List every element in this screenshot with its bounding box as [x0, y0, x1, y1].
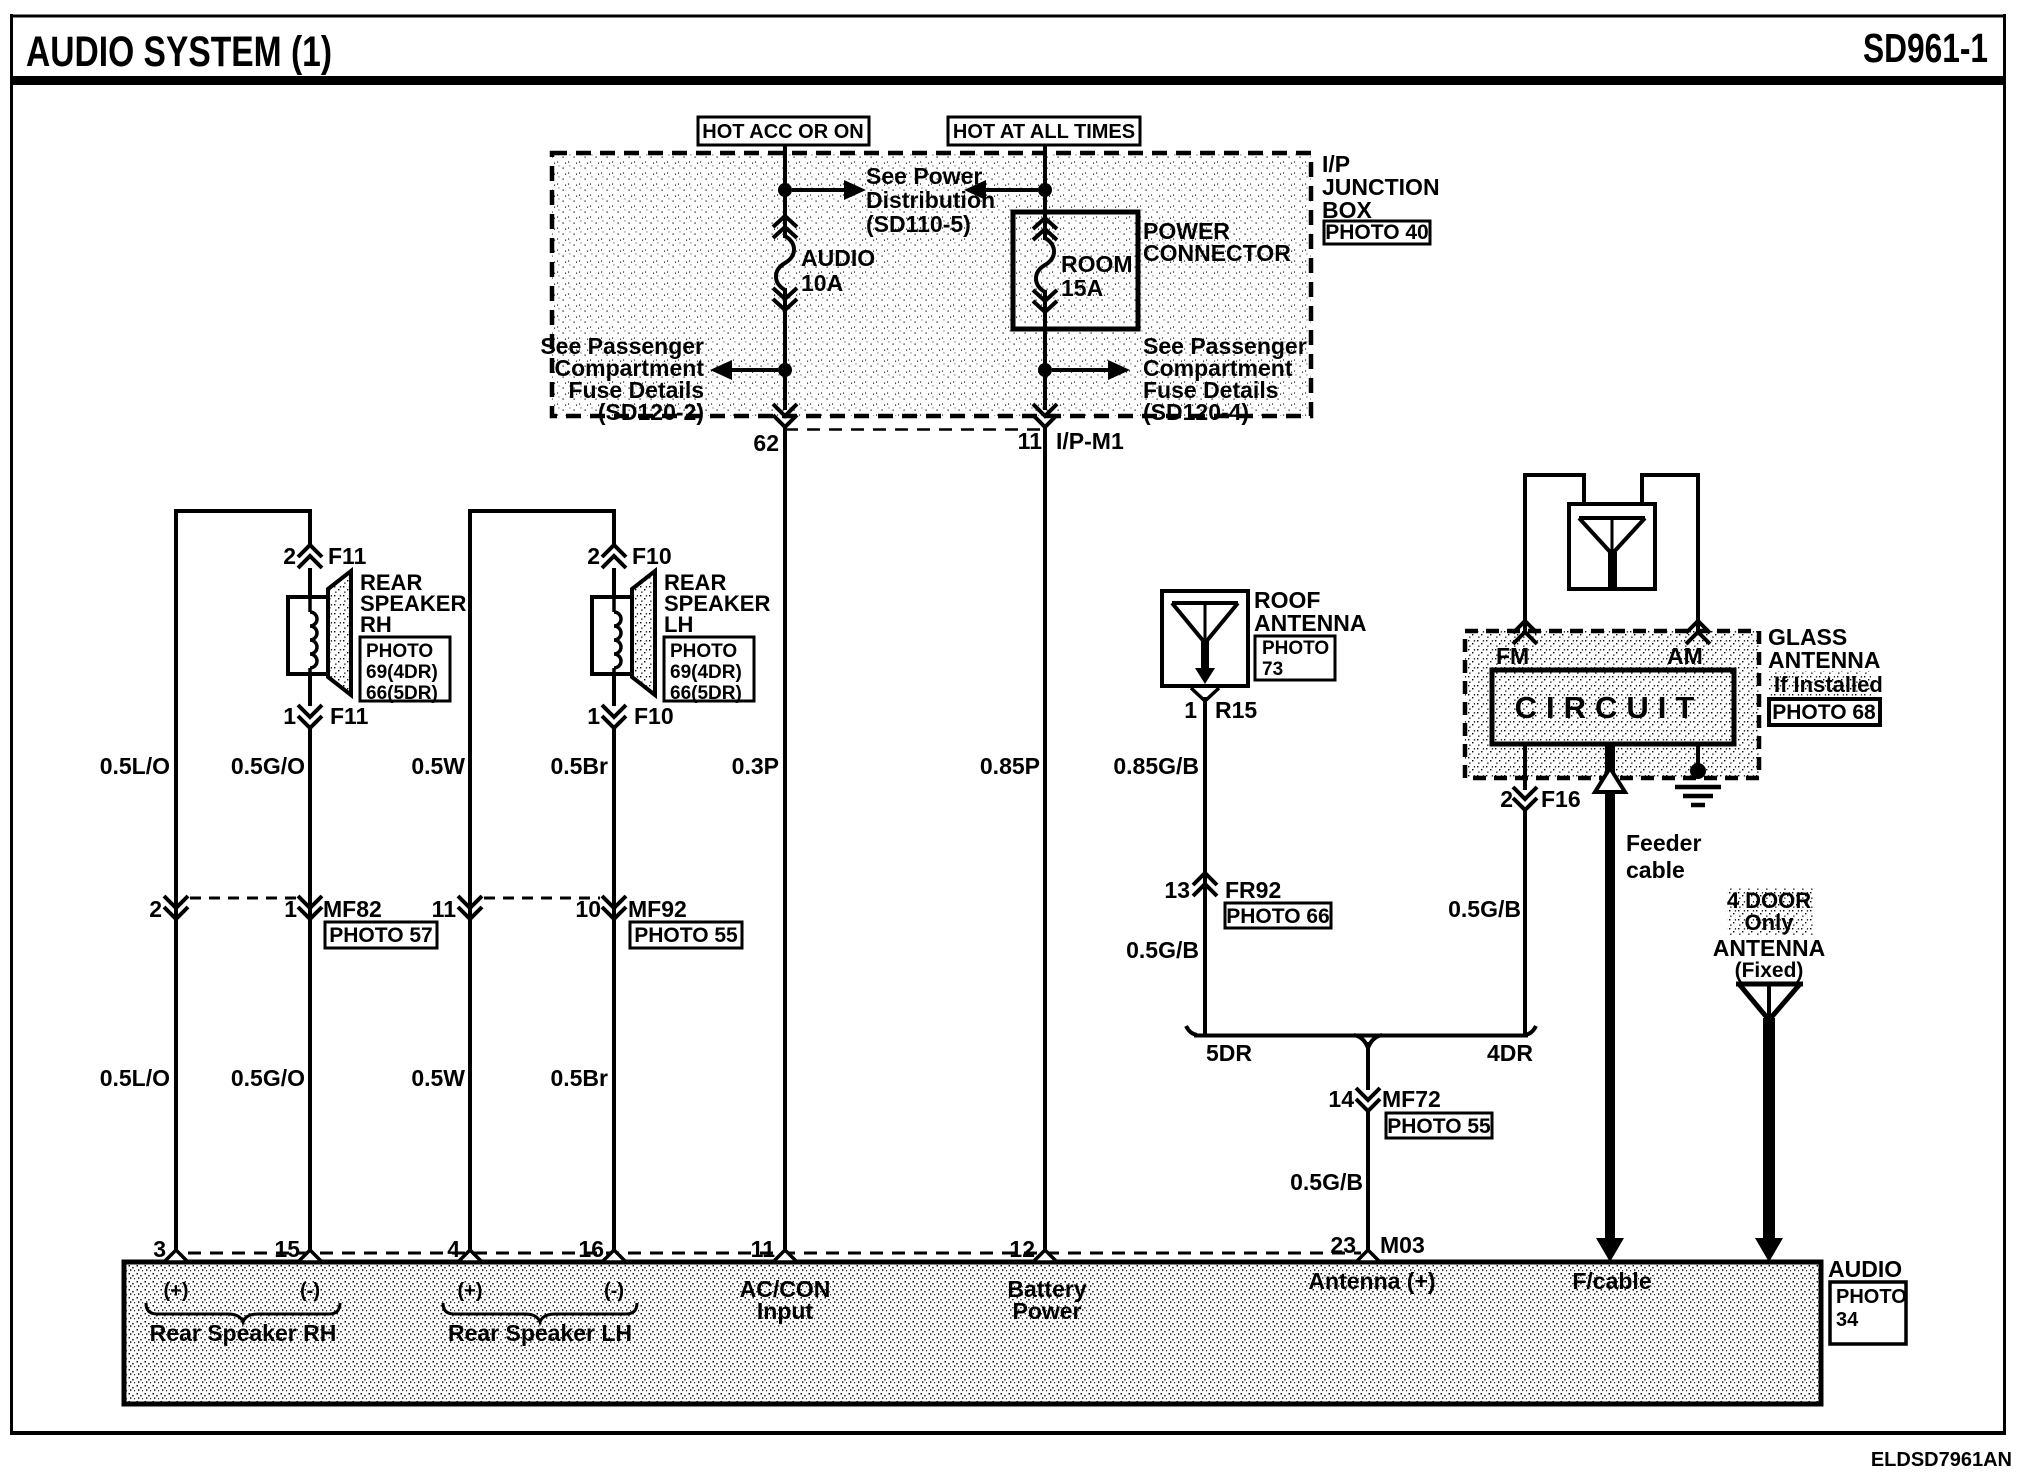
power connector box — [1013, 212, 1291, 329]
svg-text:Input: Input — [757, 1298, 814, 1324]
connector I/P-M1 chevron — [1033, 404, 1057, 427]
svg-text:PHOTO 55: PHOTO 55 — [634, 924, 738, 947]
svg-text:PHOTO 66: PHOTO 66 — [1226, 905, 1329, 928]
svg-text:2: 2 — [587, 543, 600, 569]
antenna fixed element — [1736, 984, 1803, 1262]
svg-text:PHOTO 40: PHOTO 40 — [1325, 221, 1428, 244]
label 4 DOOR Only — [1727, 888, 1813, 935]
svg-text:1: 1 — [283, 703, 296, 729]
svg-text:F16: F16 — [1541, 786, 1581, 812]
wire 5DR 4DR branch — [1186, 1026, 1536, 1262]
svg-text:If Installed: If Installed — [1774, 672, 1883, 697]
connector MF72 — [1328, 1086, 1440, 1112]
svg-text:(Fixed): (Fixed) — [1735, 959, 1804, 982]
label Battery Power — [1007, 1276, 1086, 1324]
svg-text:2: 2 — [149, 896, 162, 922]
svg-text:14: 14 — [1328, 1086, 1354, 1112]
svg-text:See Power: See Power — [866, 163, 982, 189]
svg-text:ANTENNA: ANTENNA — [1254, 610, 1366, 636]
wire arrow to SD120-2 — [710, 360, 778, 380]
wire rear speaker RH plus loop — [176, 511, 310, 1262]
svg-text:0.5Br: 0.5Br — [550, 1065, 608, 1091]
note see passenger compartment fuse details SD120-4 — [1143, 333, 1307, 425]
label PHOTO 55 MF92 — [630, 922, 742, 948]
svg-text:I/P-M1: I/P-M1 — [1056, 428, 1124, 454]
glass antenna element — [1569, 504, 1655, 589]
label HOT AT ALL TIMES — [948, 117, 1140, 145]
wire AM ground lead — [1696, 744, 1700, 772]
svg-text:RH: RH — [360, 612, 392, 637]
label I/P JUNCTION BOX — [1322, 151, 1440, 223]
svg-text:Rear Speaker LH: Rear Speaker LH — [448, 1320, 632, 1346]
label AC/CON Input — [740, 1276, 831, 1324]
brace rear speaker RH — [146, 1303, 340, 1322]
node ground dot — [1690, 763, 1706, 779]
speaker rear LH — [592, 571, 655, 695]
svg-text:66(5DR): 66(5DR) — [366, 683, 438, 704]
roof antenna R15 — [1162, 591, 1248, 701]
connector F11 pin 2 — [283, 543, 366, 569]
svg-text:5DR: 5DR — [1206, 1040, 1252, 1066]
wire harness dashed line above audio — [188, 1252, 1361, 1255]
svg-text:(SD120-4): (SD120-4) — [1143, 399, 1249, 425]
wire AM lead — [1642, 475, 1698, 631]
svg-text:3: 3 — [153, 1236, 166, 1262]
pin tents on audio box — [164, 1250, 1380, 1262]
node junction dot B2 — [1038, 363, 1052, 377]
svg-text:Antenna (+): Antenna (+) — [1308, 1268, 1435, 1294]
svg-text:AUDIO SYSTEM (1): AUDIO SYSTEM (1) — [26, 28, 332, 76]
wire label row lower — [100, 1065, 608, 1091]
svg-text:FR92: FR92 — [1225, 877, 1281, 903]
svg-text:LH: LH — [664, 612, 693, 637]
svg-text:0.85P: 0.85P — [980, 753, 1040, 779]
svg-text:(-): (-) — [300, 1280, 320, 1302]
svg-text:69(4DR): 69(4DR) — [366, 662, 438, 683]
node junction dot A2 — [778, 363, 792, 377]
svg-text:BOX: BOX — [1322, 197, 1373, 223]
svg-text:10A: 10A — [801, 270, 843, 296]
svg-text:0.5L/O: 0.5L/O — [100, 753, 170, 779]
connector F11 pin 1 — [283, 703, 368, 729]
svg-text:ROOM: ROOM — [1061, 251, 1133, 277]
svg-text:(SD120-2): (SD120-2) — [598, 399, 704, 425]
svg-text:0.3P: 0.3P — [732, 753, 779, 779]
wire roof antenna lead — [1203, 697, 1207, 1035]
wire arrow to SD120-4 — [1052, 360, 1130, 380]
svg-text:PHOTO 68: PHOTO 68 — [1772, 701, 1876, 724]
svg-text:(+): (+) — [164, 1280, 189, 1302]
svg-text:MF82: MF82 — [323, 896, 382, 922]
fuse ROOM 15A — [1033, 218, 1133, 312]
wire rear speaker LH plus loop — [470, 511, 614, 1262]
svg-text:0.5G/O: 0.5G/O — [231, 1065, 305, 1091]
svg-text:(SD110-5): (SD110-5) — [866, 211, 971, 237]
label GLASS ANTENNA — [1768, 624, 1880, 673]
svg-text:2: 2 — [1500, 786, 1513, 812]
svg-text:F/cable: F/cable — [1572, 1268, 1651, 1294]
svg-text:0.5G/B: 0.5G/B — [1126, 937, 1199, 963]
svg-text:Only: Only — [1745, 910, 1795, 935]
label PHOTO 66 — [1225, 903, 1331, 928]
svg-text:FM: FM — [1496, 643, 1529, 669]
connector 62 chevron — [773, 404, 797, 427]
wire hot-acc feed — [783, 145, 787, 1262]
svg-text:F11: F11 — [330, 703, 369, 729]
connector F10 pin 1 — [587, 703, 673, 729]
svg-text:69(4DR): 69(4DR) — [670, 662, 742, 683]
svg-text:F10: F10 — [634, 703, 674, 729]
connector F16 — [1500, 786, 1580, 812]
svg-text:2: 2 — [283, 543, 296, 569]
label PHOTO 73 — [1255, 636, 1335, 680]
svg-text:AM: AM — [1667, 643, 1703, 669]
svg-text:4DR: 4DR — [1487, 1040, 1533, 1066]
svg-text:34: 34 — [1836, 1309, 1859, 1331]
label ANTENNA (Fixed) — [1713, 935, 1825, 982]
svg-text:1: 1 — [587, 703, 600, 729]
circuit box — [1492, 670, 1734, 744]
svg-text:12: 12 — [1009, 1236, 1035, 1262]
svg-text:0.5L/O: 0.5L/O — [100, 1065, 170, 1091]
svg-text:0.5W: 0.5W — [411, 753, 465, 779]
label feeder cable — [1626, 830, 1701, 883]
svg-text:0.5G/O: 0.5G/O — [231, 753, 305, 779]
svg-text:15A: 15A — [1061, 275, 1103, 301]
ground — [1675, 787, 1721, 805]
wire arrow from hot-at-all-times dot — [964, 180, 1038, 200]
note see power distribution — [866, 163, 995, 237]
brace rear speaker LH — [443, 1303, 637, 1322]
node junction dot B1 — [1038, 183, 1052, 197]
feeder cable — [1595, 744, 1625, 1262]
svg-text:15: 15 — [274, 1236, 300, 1262]
wire from circuit to F16 — [1523, 744, 1527, 1035]
label If Installed — [1769, 671, 1883, 697]
wire hot-at-all-times feed — [1043, 145, 1047, 1262]
label PHOTO 55 MF72 — [1386, 1113, 1492, 1138]
connector chevron FM — [1513, 621, 1537, 644]
fuse AUDIO 10A — [773, 216, 875, 310]
pin 1 R15 — [1184, 697, 1257, 723]
label PHOTO 40 — [1324, 221, 1430, 244]
svg-text:PHOTO: PHOTO — [670, 641, 737, 662]
svg-text:0.5G/B: 0.5G/B — [1290, 1169, 1363, 1195]
svg-text:HOT ACC OR ON: HOT ACC OR ON — [702, 121, 863, 143]
svg-text:66(5DR): 66(5DR) — [670, 683, 742, 704]
svg-text:CONNECTOR: CONNECTOR — [1143, 240, 1291, 266]
label PHOTO 69(4DR) 66(5DR) RH — [360, 637, 450, 704]
label REAR SPEAKER RH — [360, 570, 466, 637]
svg-text:16: 16 — [578, 1236, 604, 1262]
wire FM lead — [1525, 475, 1584, 631]
svg-text:CIRCUIT: CIRCUIT — [1515, 690, 1704, 725]
label PHOTO 57 — [325, 922, 437, 948]
svg-text:MF92: MF92 — [628, 896, 687, 922]
svg-text:1: 1 — [284, 896, 297, 922]
label REAR SPEAKER LH — [664, 570, 770, 637]
svg-text:cable: cable — [1626, 857, 1685, 883]
svg-text:62: 62 — [753, 430, 779, 456]
svg-text:ANTENNA: ANTENNA — [1768, 647, 1880, 673]
svg-text:(-): (-) — [604, 1280, 624, 1302]
svg-text:AUDIO: AUDIO — [801, 245, 875, 271]
label PHOTO 68 — [1769, 699, 1880, 725]
svg-text:ELDSD7961AN: ELDSD7961AN — [1871, 1449, 2012, 1471]
svg-text:13: 13 — [1164, 877, 1190, 903]
svg-text:PHOTO 55: PHOTO 55 — [1387, 1115, 1491, 1138]
svg-text:11: 11 — [751, 1236, 776, 1262]
svg-text:PHOTO: PHOTO — [1262, 638, 1329, 659]
speaker rear RH — [288, 571, 351, 695]
svg-text:11: 11 — [432, 896, 457, 922]
glass antenna box (dashed) — [1465, 631, 1759, 778]
svg-text:0.5Br: 0.5Br — [550, 753, 608, 779]
connector chevron AM — [1686, 621, 1710, 644]
svg-text:R15: R15 — [1215, 697, 1257, 723]
svg-text:PHOTO: PHOTO — [1836, 1286, 1907, 1308]
svg-text:10: 10 — [575, 896, 601, 922]
pin 23 M03 — [1330, 1232, 1424, 1258]
svg-text:PHOTO 57: PHOTO 57 — [329, 924, 432, 947]
svg-text:0.85G/B: 0.85G/B — [1113, 753, 1199, 779]
label ROOF ANTENNA — [1254, 587, 1366, 636]
svg-text:MF72: MF72 — [1382, 1086, 1441, 1112]
svg-text:0.5G/B: 0.5G/B — [1448, 896, 1521, 922]
svg-text:(+): (+) — [458, 1280, 483, 1302]
svg-text:F10: F10 — [632, 543, 672, 569]
wire arrow to see power distribution — [792, 180, 866, 200]
svg-text:PHOTO: PHOTO — [366, 641, 433, 662]
label PHOTO 69(4DR) 66(5DR) LH — [664, 637, 754, 704]
svg-text:HOT AT ALL TIMES: HOT AT ALL TIMES — [953, 121, 1135, 143]
connector FR92 — [1164, 873, 1281, 903]
svg-text:M03: M03 — [1380, 1232, 1425, 1258]
svg-text:73: 73 — [1262, 659, 1283, 680]
audio unit box — [124, 1262, 1821, 1404]
svg-text:11: 11 — [1018, 428, 1043, 454]
svg-text:AUDIO: AUDIO — [1828, 1256, 1902, 1282]
svg-text:F11: F11 — [328, 543, 367, 569]
svg-text:SD961-1: SD961-1 — [1863, 25, 1988, 71]
svg-text:0.5W: 0.5W — [411, 1065, 465, 1091]
svg-text:1: 1 — [1184, 697, 1197, 723]
svg-text:4: 4 — [447, 1236, 460, 1262]
svg-text:Power: Power — [1012, 1298, 1081, 1324]
connector MF82 row — [149, 896, 382, 922]
I/P junction box (dashed) — [552, 153, 1311, 430]
label HOT ACC OR ON — [698, 117, 869, 145]
node junction dot A1 — [778, 183, 792, 197]
svg-text:ANTENNA: ANTENNA — [1713, 935, 1825, 961]
connector MF92 row — [432, 896, 687, 922]
svg-text:Feeder: Feeder — [1626, 830, 1701, 856]
pin numbers audio — [153, 1236, 1035, 1262]
note see passenger compartment fuse details SD120-2 — [540, 333, 704, 425]
svg-text:Rear Speaker RH: Rear Speaker RH — [150, 1320, 337, 1346]
connector F10 pin 2 — [587, 543, 671, 569]
label PHOTO 34 — [1830, 1282, 1907, 1344]
pin 11 I/P-M1 — [1018, 428, 1124, 454]
wire label row upper — [100, 753, 1199, 779]
